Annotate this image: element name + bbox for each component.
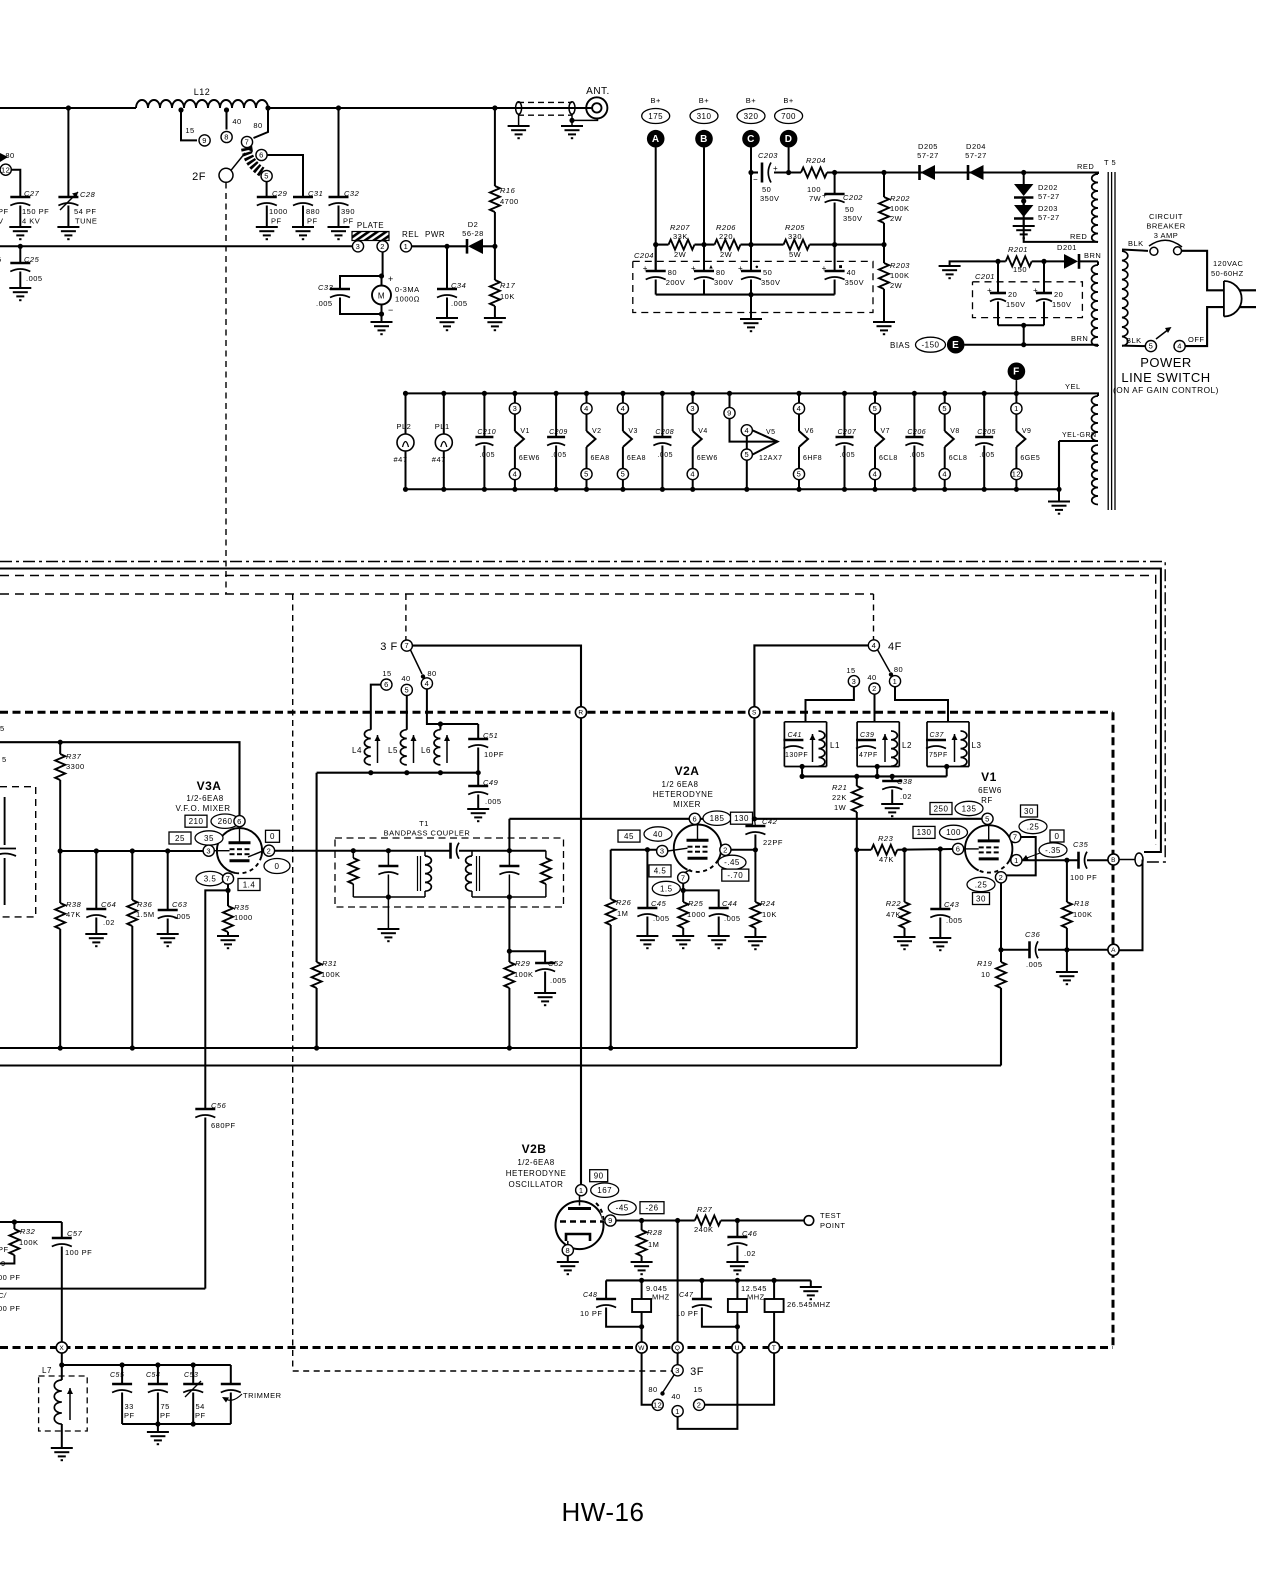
- svg-text:R204: R204: [806, 156, 826, 165]
- svg-text:3: 3: [206, 846, 211, 855]
- wire bus 2: [0, 1065, 1001, 1067]
- capacitor C63: [167, 851, 169, 910]
- V2A pin 6: [689, 813, 700, 824]
- svg-text:30: 30: [976, 894, 986, 903]
- tube V6 heater: [796, 391, 801, 396]
- capacitor C43: [939, 849, 941, 909]
- svg-text:R205: R205: [785, 223, 805, 232]
- svg-text:20: 20: [1054, 290, 1063, 299]
- svg-text:130PF: 130PF: [785, 752, 808, 759]
- svg-text:BIAS: BIAS: [890, 341, 910, 350]
- svg-text:BRN: BRN: [1071, 334, 1088, 343]
- svg-text:4: 4: [621, 404, 626, 413]
- svg-text:-.35: -.35: [1045, 846, 1061, 855]
- svg-text:5W: 5W: [789, 250, 802, 259]
- svg-text:2W: 2W: [890, 281, 903, 290]
- V2B pin 9: [608, 1201, 636, 1215]
- VFO partial capacitor: [4, 797, 6, 845]
- svg-text:150V: 150V: [1052, 300, 1072, 309]
- svg-text:R17: R17: [500, 281, 516, 290]
- wire V2A grid row: [611, 849, 657, 851]
- gang dashed vertical to 3F bottom: [293, 594, 672, 1371]
- svg-text:8: 8: [224, 133, 229, 142]
- svg-text:C44: C44: [722, 899, 737, 908]
- dashed gang line from 2F: [225, 183, 227, 595]
- svg-text:3F: 3F: [690, 1366, 704, 1378]
- svg-text:0: 0: [275, 862, 280, 871]
- svg-text:6: 6: [692, 814, 697, 823]
- svg-text:PF: PF: [124, 1411, 135, 1420]
- capacitor C42: [754, 819, 755, 826]
- gang dashed line: [0, 593, 874, 595]
- svg-text:100K: 100K: [321, 970, 341, 979]
- VFO dashed box (edge): [0, 787, 36, 917]
- T1 coupling capacitor: [449, 843, 452, 859]
- wire 2F common row: [0, 245, 352, 247]
- resistor R204: [801, 168, 827, 178]
- svg-text:A: A: [1111, 947, 1116, 954]
- svg-text:R: R: [578, 710, 583, 717]
- diode D205: [918, 165, 921, 180]
- svg-text:350V: 350V: [761, 278, 781, 287]
- wire L1 to bus: [800, 764, 805, 769]
- svg-text:-.70: -.70: [727, 871, 743, 880]
- svg-text:6EA8: 6EA8: [627, 455, 646, 462]
- wire R23 row: [857, 849, 872, 851]
- svg-text:V7: V7: [881, 428, 891, 435]
- diode D201: [1064, 254, 1078, 269]
- svg-text:R22: R22: [886, 899, 902, 908]
- svg-text:C29: C29: [272, 189, 288, 198]
- svg-text:C201: C201: [975, 272, 995, 281]
- capacitor C25: [18, 244, 23, 249]
- tube V2 heater: [584, 391, 589, 396]
- svg-text:−: −: [388, 305, 394, 315]
- svg-text:1000: 1000: [687, 910, 706, 919]
- svg-text:V.F.O. MIXER: V.F.O. MIXER: [175, 804, 230, 813]
- svg-text:1000: 1000: [234, 913, 253, 922]
- svg-text:.005: .005: [1026, 960, 1043, 969]
- V2A pin 7: [649, 865, 671, 877]
- svg-text:3: 3: [852, 677, 857, 686]
- wire plug lower to switch: [1186, 307, 1225, 346]
- svg-text:350V: 350V: [845, 278, 865, 287]
- svg-text:RED: RED: [1070, 232, 1087, 241]
- wire 15m contact to T: [705, 1353, 774, 1405]
- svg-text:15: 15: [185, 126, 194, 135]
- svg-text:7: 7: [245, 138, 250, 147]
- svg-text:B+: B+: [746, 96, 757, 105]
- svg-text:R28: R28: [647, 1228, 663, 1237]
- svg-text:R31: R31: [322, 959, 337, 968]
- capacitor C27: [11, 170, 20, 197]
- wire V1 pin1 output: [1022, 859, 1078, 861]
- svg-text:26.545MHZ: 26.545MHZ: [787, 1300, 831, 1309]
- svg-text:C49: C49: [483, 778, 499, 787]
- svg-text:100: 100: [946, 828, 961, 837]
- svg-text:1W: 1W: [834, 803, 847, 812]
- tube V3A: [217, 828, 262, 873]
- svg-text:R37: R37: [66, 752, 82, 761]
- capacitor C51: [477, 724, 479, 739]
- svg-text:V: V: [0, 217, 4, 226]
- wire 4F to V2A plate line: [754, 645, 868, 818]
- svg-text:100K: 100K: [1073, 910, 1093, 919]
- tube V8 heater: [942, 391, 947, 396]
- capacitor C53 trimmer: [192, 1365, 194, 1384]
- svg-text:4: 4: [873, 470, 878, 479]
- transformer T5 bias winding: [1097, 261, 1099, 265]
- svg-text:5: 5: [942, 404, 947, 413]
- svg-text:3: 3: [690, 404, 695, 413]
- svg-text:R203: R203: [890, 261, 910, 270]
- svg-text:R32: R32: [20, 1227, 36, 1236]
- svg-text:V8: V8: [950, 428, 960, 435]
- svg-text:●: ●: [755, 265, 759, 271]
- svg-text:L2: L2: [902, 741, 912, 750]
- capacitor C28: [67, 108, 69, 197]
- svg-text:C46: C46: [742, 1229, 758, 1238]
- svg-text:PF: PF: [271, 217, 282, 226]
- svg-text:R27: R27: [697, 1205, 713, 1214]
- svg-text:10: 10: [981, 970, 990, 979]
- svg-text:4700: 4700: [500, 197, 519, 206]
- gang dashed vertical to 3F top: [405, 594, 407, 640]
- svg-text:57-27: 57-27: [917, 151, 939, 160]
- svg-text:C52: C52: [548, 959, 564, 968]
- wire V3A cathode to C56: [205, 890, 228, 1109]
- tank L1: [806, 687, 854, 722]
- resistor R23: [871, 845, 897, 855]
- svg-text:Q: Q: [675, 1345, 681, 1352]
- svg-text:4: 4: [1177, 342, 1182, 351]
- svg-text:C206: C206: [907, 429, 926, 436]
- svg-text:B: B: [1111, 857, 1116, 864]
- svg-text:5: 5: [584, 470, 589, 479]
- svg-text:C33: C33: [318, 283, 334, 292]
- inductor L6: [427, 689, 478, 724]
- svg-text:+: +: [773, 164, 778, 173]
- svg-text:700: 700: [781, 112, 796, 121]
- svg-text:40: 40: [867, 673, 876, 682]
- svg-text:PF: PF: [195, 1411, 206, 1420]
- wire T1 right bottom: [472, 896, 546, 898]
- svg-text:C25: C25: [24, 255, 40, 264]
- wire B to feedthrough and down to A: [1119, 859, 1135, 861]
- svg-text:6EA8: 6EA8: [591, 455, 610, 462]
- svg-text:TEST: TEST: [820, 1211, 841, 1220]
- svg-text:5: 5: [0, 724, 5, 733]
- svg-text:3: 3: [675, 1366, 680, 1375]
- svg-text:330: 330: [788, 232, 802, 241]
- wire 40m contact to U: [678, 1353, 738, 1429]
- diode D204: [967, 165, 970, 180]
- svg-text:HETERODYNE: HETERODYNE: [506, 1169, 567, 1178]
- wire X down: [61, 1353, 63, 1365]
- svg-text:390: 390: [341, 207, 355, 216]
- svg-text:C31: C31: [308, 189, 323, 198]
- wire heater bottom rail: [404, 488, 1059, 490]
- wire padder row: [62, 1364, 231, 1366]
- svg-text:R24: R24: [760, 899, 775, 908]
- switch 2F rotor wedge: [246, 148, 262, 172]
- svg-text:1: 1: [1014, 404, 1019, 413]
- svg-text:BRN: BRN: [1084, 251, 1101, 260]
- svg-text:L6: L6: [421, 746, 431, 755]
- tube V5 heater: [727, 391, 732, 396]
- svg-text:BREAKER: BREAKER: [1146, 222, 1185, 231]
- resistor R32: [9, 1229, 19, 1255]
- wire R32/C57 row: [0, 1221, 62, 1223]
- svg-text:B: B: [700, 134, 708, 145]
- node A grommet: [1108, 944, 1119, 955]
- resistor R16: [492, 105, 497, 110]
- wire V2A pin2 to C42/R24: [731, 849, 755, 851]
- svg-text:1M: 1M: [648, 1240, 659, 1249]
- svg-text:12: 12: [1, 165, 10, 174]
- svg-text:1: 1: [893, 677, 898, 686]
- svg-text:50-60HZ: 50-60HZ: [1211, 269, 1244, 278]
- svg-text:10 PF: 10 PF: [580, 1309, 603, 1318]
- capacitor C205: [982, 391, 987, 396]
- ground D203: [1023, 219, 1025, 227]
- lamp PL2: [403, 391, 408, 396]
- svg-text:C28: C28: [80, 190, 96, 199]
- diode D203: [1023, 198, 1025, 206]
- wire R21 to B+ bus: [856, 850, 858, 1048]
- V2A stems: [697, 824, 699, 840]
- connector PLATE (hatched): [352, 232, 389, 241]
- svg-text:LINE SWITCH: LINE SWITCH: [1121, 370, 1210, 385]
- V1 pin 5: [930, 803, 952, 815]
- svg-text:80: 80: [5, 151, 14, 160]
- capacitor C44: [683, 890, 719, 908]
- wire padder bottom: [122, 1423, 231, 1425]
- capacitor C206: [912, 391, 917, 396]
- svg-text:1.4: 1.4: [243, 880, 256, 889]
- svg-text:YEL: YEL: [1065, 382, 1081, 391]
- svg-text:.005: .005: [479, 452, 495, 459]
- svg-text:6CL8: 6CL8: [949, 455, 968, 462]
- svg-text:D204: D204: [966, 142, 986, 151]
- svg-text:-150: -150: [921, 341, 939, 350]
- ground C204: [750, 295, 752, 319]
- svg-text:C210: C210: [477, 429, 496, 436]
- svg-text:PF: PF: [160, 1411, 171, 1420]
- svg-text:V3: V3: [628, 428, 638, 435]
- svg-text:X: X: [59, 1345, 64, 1352]
- svg-text:S: S: [752, 710, 757, 717]
- svg-text:D202: D202: [1038, 183, 1058, 192]
- svg-text:3300: 3300: [66, 762, 85, 771]
- tube V3 heater: [620, 391, 625, 396]
- svg-text:130: 130: [734, 814, 749, 823]
- switch 2F rotor hub: [219, 168, 233, 182]
- svg-text:880: 880: [306, 207, 320, 216]
- svg-text:1/2-6EA8: 1/2-6EA8: [186, 794, 223, 803]
- capacitor C34: [444, 244, 449, 249]
- capacitor C38: [891, 776, 893, 781]
- capacitor C45: [646, 850, 648, 908]
- resistor R17: [492, 244, 497, 249]
- svg-text:T1: T1: [419, 819, 429, 828]
- svg-text:250: 250: [934, 804, 949, 813]
- svg-text:6: 6: [384, 680, 389, 689]
- svg-text:C203: C203: [758, 151, 778, 160]
- svg-text:4: 4: [872, 641, 877, 650]
- svg-text:40: 40: [401, 674, 410, 683]
- svg-text:MHZ: MHZ: [747, 1293, 765, 1302]
- V3A pin 6: [185, 815, 207, 827]
- node W grommet: [636, 1342, 647, 1353]
- wire T1 to AGC divider: [508, 897, 510, 951]
- svg-text:1: 1: [579, 1186, 584, 1195]
- svg-text:3: 3: [356, 242, 361, 251]
- svg-text:1/2 6EA8: 1/2 6EA8: [662, 780, 699, 789]
- V1 pin 1: [1050, 830, 1064, 842]
- capacitor C56: [204, 890, 206, 1109]
- svg-text:L12: L12: [194, 87, 211, 97]
- svg-text:9: 9: [202, 136, 207, 145]
- svg-text:6CL8: 6CL8: [879, 455, 898, 462]
- capacitor C57: [61, 1222, 63, 1238]
- svg-text:3: 3: [513, 404, 518, 413]
- svg-text:.005: .005: [724, 914, 741, 923]
- tube V4 heater: [690, 391, 695, 396]
- svg-text:+: +: [822, 264, 827, 273]
- svg-text:+: +: [643, 264, 648, 273]
- svg-text:V2: V2: [592, 428, 602, 435]
- svg-text:2W: 2W: [720, 250, 733, 259]
- svg-text:+: +: [1033, 286, 1038, 295]
- svg-text:PF: PF: [307, 217, 318, 226]
- svg-text:5: 5: [1149, 342, 1154, 351]
- transformer T5 HV winding: [1085, 173, 1098, 175]
- svg-text:L4: L4: [352, 746, 362, 755]
- svg-text:R25: R25: [688, 899, 704, 908]
- svg-text:HW-16: HW-16: [562, 1497, 645, 1527]
- node Q grommet: [672, 1342, 683, 1353]
- wire C201 bottom: [998, 324, 1044, 326]
- svg-text:E: E: [952, 340, 959, 351]
- svg-text:100K: 100K: [514, 970, 534, 979]
- svg-text:R23: R23: [878, 834, 894, 843]
- svg-text:1: 1: [1014, 856, 1019, 865]
- diode D2: [466, 239, 469, 254]
- wire V1 pin2 down: [1000, 883, 1002, 950]
- svg-text:R201: R201: [1008, 245, 1028, 254]
- svg-text:REL: REL: [402, 230, 419, 239]
- svg-text:L1: L1: [830, 741, 840, 750]
- capacitor C210: [482, 391, 487, 396]
- svg-text:C41: C41: [788, 732, 802, 739]
- svg-text:5: 5: [797, 470, 802, 479]
- capacitor C29: [266, 182, 268, 197]
- svg-text:54 PF: 54 PF: [74, 207, 97, 216]
- svg-text:5: 5: [873, 404, 878, 413]
- capacitor C49: [477, 773, 479, 786]
- svg-text:#47: #47: [394, 455, 408, 464]
- svg-text:47K: 47K: [886, 910, 901, 919]
- svg-text:+: +: [987, 286, 992, 295]
- wire B+ D column: [788, 148, 790, 173]
- circuit breaker: [1122, 250, 1148, 251]
- svg-text:(ON AF GAIN CONTROL): (ON AF GAIN CONTROL): [1113, 385, 1219, 395]
- svg-text:80: 80: [716, 268, 725, 277]
- resistor R27: [695, 1216, 721, 1226]
- power line switch: [1122, 345, 1145, 348]
- svg-text:BLK: BLK: [1128, 239, 1144, 248]
- resistor R36: [131, 851, 133, 900]
- svg-text:R26: R26: [616, 898, 632, 907]
- svg-text:BANDPASS COUPLER: BANDPASS COUPLER: [384, 829, 471, 838]
- svg-text:6: 6: [956, 845, 961, 854]
- capacitor C207: [842, 391, 847, 396]
- node U grommet: [732, 1342, 743, 1353]
- svg-text:35: 35: [204, 834, 214, 843]
- svg-text:350V: 350V: [760, 194, 780, 203]
- node D B+700: [780, 130, 798, 148]
- wire E to BRN: [965, 344, 1099, 346]
- chassis dash-dot line outer: [0, 562, 1165, 863]
- svg-text:C35: C35: [1073, 840, 1089, 849]
- svg-text:9: 9: [1, 1259, 6, 1268]
- ground R203: [873, 322, 895, 334]
- svg-text:C: C: [747, 134, 755, 145]
- svg-text:C48: C48: [583, 1292, 597, 1299]
- svg-text:1000: 1000: [269, 207, 288, 216]
- wire V1 pin7 to pin2 loop: [1007, 837, 1036, 875]
- svg-text:40: 40: [653, 830, 663, 839]
- svg-text:.005: .005: [551, 452, 567, 459]
- svg-text:120VAC: 120VAC: [1213, 259, 1243, 268]
- shield heavy dashed S line: [0, 711, 1113, 714]
- svg-text:C54: C54: [146, 1372, 160, 1379]
- ground coax right: [571, 114, 573, 120]
- svg-text:6: 6: [259, 151, 264, 160]
- svg-text:R21: R21: [832, 783, 847, 792]
- svg-text:B+: B+: [651, 96, 662, 105]
- ground V2B cathode: [567, 1256, 569, 1262]
- node B B+310: [695, 130, 713, 148]
- svg-text:.005: .005: [485, 797, 502, 806]
- svg-text:C207: C207: [838, 429, 857, 436]
- svg-text:R29: R29: [515, 959, 531, 968]
- wire B+ C column: [750, 148, 752, 272]
- svg-text:R18: R18: [1074, 899, 1090, 908]
- svg-text:PF: PF: [343, 217, 354, 226]
- svg-text:80: 80: [894, 665, 903, 674]
- diode D202: [1021, 170, 1026, 175]
- resistor R35: [227, 884, 229, 906]
- svg-text:C209: C209: [549, 429, 568, 436]
- capacitor C47: [701, 1280, 703, 1299]
- antenna coax shield: [518, 101, 572, 103]
- svg-text:V6: V6: [805, 428, 815, 435]
- svg-text:7: 7: [1013, 833, 1018, 842]
- tube V2A: [674, 825, 721, 872]
- svg-text:PWR: PWR: [425, 230, 445, 239]
- wire W to 80m contact: [642, 1353, 653, 1405]
- svg-text:V4: V4: [698, 428, 708, 435]
- svg-text:2: 2: [697, 1400, 702, 1409]
- svg-text:150V: 150V: [1006, 300, 1026, 309]
- svg-text:R202: R202: [890, 194, 910, 203]
- resistor R206: [715, 240, 741, 250]
- switch 2F wafer taps 15/40/80: [181, 110, 197, 140]
- svg-text:PL2: PL2: [397, 422, 412, 431]
- V1 stems: [988, 824, 990, 840]
